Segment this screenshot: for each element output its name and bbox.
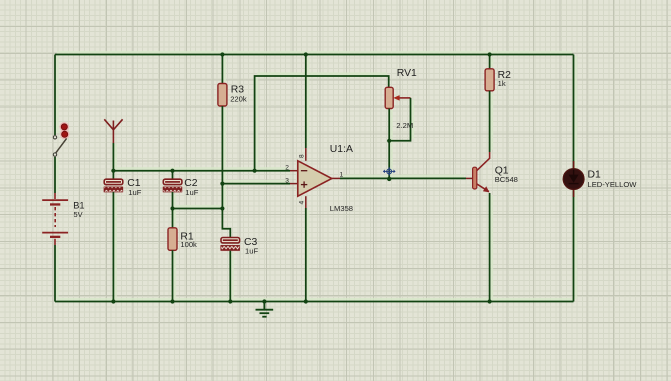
- LED D1: [563, 161, 584, 197]
- junction top rail / R2: [488, 52, 492, 56]
- wire antenna to input node: [112, 143, 114, 171]
- label LM358: [330, 204, 353, 213]
- op-amp U1:A: [290, 148, 340, 208]
- label RV1 value 2.2M: [396, 121, 413, 130]
- svg-text:LED-YELLOW: LED-YELLOW: [588, 180, 638, 189]
- wire battery to bottom rail: [54, 245, 56, 302]
- pin number 1: [340, 171, 344, 178]
- junction bottom rail / R1: [170, 299, 174, 303]
- label C1 value 1uF: [128, 188, 141, 197]
- junction input row / feedback: [253, 169, 257, 173]
- svg-text:2: 2: [285, 164, 289, 171]
- wire switch to battery: [54, 157, 56, 193]
- wire left rail upper: [54, 55, 56, 136]
- antenna AE1: [104, 119, 122, 143]
- transistor Q1: [466, 152, 490, 302]
- resistor R2: [485, 55, 494, 153]
- junction output row / RV1: [387, 177, 391, 181]
- wire right rail: [573, 55, 575, 302]
- wire pin8 to top rail: [305, 55, 307, 149]
- wire pin3 row: [222, 183, 290, 185]
- wire RV1 wiper loop: [389, 98, 410, 141]
- label R2 value 1k: [498, 79, 506, 88]
- pin number 8: [299, 154, 306, 158]
- resistor R1: [168, 209, 177, 302]
- switch SW1: [53, 122, 69, 156]
- junction bottom rail / C1: [111, 299, 115, 303]
- junction C2 bottom row / C3: [220, 206, 224, 210]
- label R2: [498, 70, 512, 81]
- svg-text:100k: 100k: [180, 240, 197, 249]
- junction C2 bottom row / R1: [170, 206, 174, 210]
- label R1: [180, 231, 194, 242]
- wire op-amp output row: [340, 177, 466, 179]
- junction input row / C2: [170, 169, 174, 173]
- label R1 value 100k: [180, 240, 197, 249]
- wire feedback loop (pin2 up and over to RV1): [255, 76, 389, 171]
- junction bottom rail / C3: [228, 299, 232, 303]
- pin number 3: [285, 177, 289, 184]
- wire bottom rail: [55, 301, 574, 303]
- svg-text:LM358: LM358: [330, 204, 353, 213]
- capacitor C2: [162, 171, 182, 209]
- junction top rail / R3: [220, 52, 224, 56]
- svg-text:4: 4: [299, 201, 306, 205]
- svg-text:1uF: 1uF: [245, 246, 258, 255]
- capacitor C1: [103, 171, 123, 302]
- label D1: [588, 170, 602, 181]
- battery B1: [42, 193, 68, 245]
- label B1 value 5V: [74, 210, 83, 219]
- label B1: [73, 200, 84, 210]
- label C3 value 1uF: [245, 246, 258, 255]
- junction bottom rail / ground: [262, 299, 266, 303]
- capacitor C3: [220, 238, 240, 302]
- svg-text:RV1: RV1: [397, 68, 417, 79]
- pin number 2: [285, 164, 289, 171]
- ground: [256, 302, 274, 317]
- label C1: [127, 178, 141, 189]
- svg-text:8: 8: [299, 154, 306, 158]
- svg-text:2.2M: 2.2M: [396, 121, 413, 130]
- svg-text:5V: 5V: [74, 210, 83, 219]
- label RV1: [397, 68, 417, 79]
- junction pin3 row / R3: [220, 182, 224, 186]
- node blue origin marker: [383, 167, 396, 175]
- svg-text:BC548: BC548: [495, 175, 518, 184]
- wire top rail: [55, 54, 574, 56]
- svg-text:1: 1: [340, 171, 344, 178]
- label Q1 value BC548: [495, 175, 518, 184]
- svg-text:B1: B1: [73, 200, 84, 210]
- wire jog to C3: [222, 209, 230, 238]
- resistor R3: [218, 55, 227, 209]
- junction bottom rail / Q1 emitter: [488, 299, 492, 303]
- wire glow halos (resize artifact): [57, 52, 576, 299]
- label C2 value 1uF: [185, 188, 198, 197]
- potentiometer RV1: [385, 87, 410, 178]
- svg-text:1k: 1k: [498, 79, 506, 88]
- svg-text:3: 3: [285, 177, 289, 184]
- label C2: [184, 178, 198, 189]
- junction top rail / pin8: [304, 52, 308, 56]
- svg-text:1uF: 1uF: [128, 188, 141, 197]
- wire C2 bottom row: [173, 208, 223, 210]
- label D1 value LED-YELLOW: [588, 180, 638, 189]
- junction bottom rail / pin4: [304, 299, 308, 303]
- label Q1: [495, 166, 509, 177]
- wire input row to op-amp pin2: [113, 170, 290, 172]
- label R3: [231, 85, 245, 96]
- label R3 value 220k: [230, 94, 247, 103]
- wire pin4 to bottom rail: [305, 208, 307, 302]
- junction input row / antenna C1: [111, 169, 115, 173]
- junction RV1 wiper loop: [387, 139, 391, 143]
- pin number 4: [299, 201, 306, 205]
- svg-text:1uF: 1uF: [185, 188, 198, 197]
- svg-text:220k: 220k: [230, 94, 247, 103]
- label U1:A: [330, 144, 353, 155]
- label C3: [244, 237, 258, 248]
- svg-text:U1:A: U1:A: [330, 144, 353, 155]
